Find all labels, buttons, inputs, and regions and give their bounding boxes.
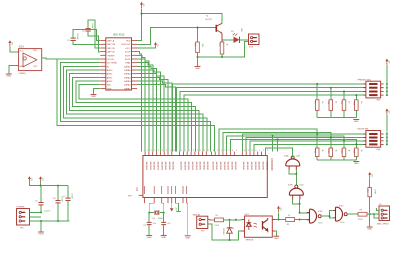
svg-text:P$1: P$1	[33, 50, 37, 52]
svg-text:(AD0)PA0: (AD0)PA0	[261, 162, 264, 170]
svg-text:(AD0)PA0: (AD0)PA0	[215, 162, 218, 170]
svg-text:5: 5	[236, 150, 237, 152]
svg-text:ADR1: ADR1	[107, 73, 113, 76]
svg-text:(AD0)PA0: (AD0)PA0	[168, 162, 171, 170]
svg-text:1: 1	[221, 150, 222, 152]
svg-text:(AD0)PA0: (AD0)PA0	[234, 162, 237, 170]
svg-text:+5V: +5V	[142, 3, 144, 7]
svg-text:2200: 2200	[215, 225, 220, 227]
svg-text:1k: 1k	[334, 150, 336, 153]
power VCC symbol on IC1 TOE pin	[137, 42, 158, 48]
svg-text:D1: D1	[232, 228, 235, 230]
svg-text:DATA5: DATA5	[124, 73, 131, 76]
svg-text:(AD0)PA0: (AD0)PA0	[191, 162, 194, 170]
ground symbol power section	[38, 232, 44, 236]
ground symbol below MIDI THRU	[367, 227, 373, 231]
wire MIDI THRU pin3 to ground	[370, 214, 379, 226]
wire op-amp output to IC1 pin	[42, 57, 100, 60]
microcontroller IC2 AT90S8535	[128, 150, 273, 204]
svg-text:C1: C1	[67, 40, 71, 42]
svg-text:R8: R8	[327, 101, 329, 105]
power VCC symbol on AVCC pin	[170, 203, 177, 211]
svg-text:DATA4: DATA4	[124, 76, 131, 79]
svg-text:ADR3: ADR3	[107, 80, 113, 83]
svg-text:DATA7: DATA7	[124, 65, 131, 68]
resistor R3 2200	[215, 215, 224, 227]
ground symbol below IC2 GND pin	[185, 236, 191, 240]
ground symbol below PRESET resistors	[353, 120, 359, 124]
resistor R7 220R vertical	[366, 188, 376, 197]
svg-text:MIDI IN: MIDI IN	[193, 214, 201, 216]
svg-text:7400: 7400	[318, 222, 323, 224]
svg-text:22p: 22p	[167, 223, 171, 225]
svg-text:1k: 1k	[321, 150, 323, 153]
LED D2	[231, 28, 242, 43]
svg-text:220R: 220R	[373, 189, 375, 194]
svg-text:+5V: +5V	[156, 43, 158, 47]
svg-text:7: 7	[208, 150, 209, 152]
wire R7 to output net	[369, 179, 371, 215]
ground symbol below R1	[195, 57, 201, 70]
svg-text:SV2: SV2	[249, 47, 254, 49]
ground symbol below IC1	[91, 88, 101, 98]
svg-text:(AD0)PA0: (AD0)PA0	[172, 162, 175, 170]
crystal Q1	[153, 210, 164, 220]
svg-text:(AD0)PA0: (AD0)PA0	[183, 162, 186, 170]
svg-text:SFH618: SFH618	[246, 239, 254, 241]
ground symbol below MODE resistors	[353, 162, 359, 166]
svg-text:R12: R12	[327, 150, 329, 155]
svg-text:4: 4	[232, 150, 233, 152]
svg-text:+5V: +5V	[30, 177, 32, 181]
svg-text:(AD0)PA0: (AD0)PA0	[199, 162, 202, 170]
power VCC symbol for op-amp	[8, 40, 12, 46]
svg-text:GND: GND	[367, 229, 372, 231]
svg-text:JP2: JP2	[201, 230, 205, 232]
svg-text:R7: R7	[366, 189, 368, 193]
wire top power rail	[29, 183, 68, 187]
svg-text:(AD0)PA0: (AD0)PA0	[180, 162, 183, 170]
svg-text:VCC: VCC	[19, 51, 24, 53]
svg-text:(AD0)PA0: (AD0)PA0	[223, 162, 226, 170]
svg-text:9: 9	[217, 150, 218, 152]
svg-text:5: 5	[200, 150, 201, 152]
power VCC symbol above R7	[368, 172, 372, 178]
svg-text:CLOCK: CLOCK	[107, 59, 115, 61]
svg-text:(AD0)PA0: (AD0)PA0	[258, 162, 261, 170]
ground symbol below op-amp	[6, 74, 12, 78]
connector JP2 MIDI IN	[193, 214, 208, 232]
svg-text:IC2: IC2	[136, 187, 139, 191]
capacitor C4 22p	[161, 213, 171, 235]
svg-text:T1: T1	[206, 15, 209, 17]
NAND gate IC3A	[284, 154, 301, 170]
svg-text:+5V: +5V	[279, 207, 281, 211]
svg-text:IC3A: IC3A	[284, 154, 289, 157]
svg-text:6: 6	[244, 150, 245, 152]
svg-text:+5V: +5V	[41, 177, 43, 181]
svg-text:ADR2: ADR2	[107, 76, 113, 79]
resistors R11-R14 pulldowns for MODE	[313, 133, 362, 160]
svg-text:3: 3	[267, 150, 268, 152]
svg-text:GND: GND	[274, 238, 279, 240]
svg-text:R7: R7	[313, 101, 315, 105]
svg-text:AT90S8535: AT90S8535	[270, 158, 273, 171]
svg-text:8: 8	[252, 150, 253, 152]
svg-text:CAP OM: CAP OM	[107, 43, 115, 46]
wire opto emitter to ground	[275, 231, 276, 236]
capacitor C1 1000nF	[67, 33, 78, 42]
svg-text:C3: C3	[143, 225, 146, 227]
svg-text:1k: 1k	[226, 44, 228, 47]
svg-text:+5V: +5V	[11, 41, 13, 45]
wire from VCC to op-amp V+ pin	[10, 47, 19, 52]
svg-text:(AD0)PA0: (AD0)PA0	[145, 162, 148, 170]
svg-text:6: 6	[166, 150, 167, 152]
svg-text:1k: 1k	[321, 101, 323, 104]
capacitor C3 22p	[143, 213, 157, 235]
svg-text:1000nF: 1000nF	[76, 33, 78, 41]
svg-text:MIDI_THRU: MIDI_THRU	[377, 223, 389, 225]
svg-text:DATA6: DATA6	[124, 69, 131, 72]
svg-text:IC1A: IC1A	[19, 46, 25, 49]
capacitor C5 100uF	[35, 186, 51, 213]
wire IC1 StD output to transistor base	[137, 28, 216, 45]
svg-text:DATA1: DATA1	[124, 87, 131, 90]
svg-text:8: 8	[213, 150, 214, 152]
svg-text:1K: 1K	[288, 215, 291, 217]
wire R5 to gate IC3D input	[295, 219, 310, 221]
wire transistor base junction to R1	[197, 27, 199, 43]
svg-text:7: 7	[170, 150, 171, 152]
ground symbol below optocoupler	[273, 236, 279, 240]
svg-text:100nF: 100nF	[71, 193, 73, 199]
power VCC symbol for MODE SEL	[385, 109, 389, 115]
svg-text:2: 2	[151, 150, 152, 152]
svg-text:1k: 1k	[348, 150, 350, 153]
svg-text:Q1: Q1	[153, 218, 157, 220]
svg-text:SED 4510: SED 4510	[113, 34, 125, 37]
svg-text:(AD0)PA0: (AD0)PA0	[195, 162, 198, 170]
svg-text:2: 2	[189, 150, 190, 152]
wire IC3D output to IC3C inputs	[321, 210, 332, 218]
svg-text:CAP DB: CAP DB	[107, 51, 115, 54]
wire MODE row to MIDI THRU pin1	[377, 208, 380, 210]
svg-text:(AD0)PA0: (AD0)PA0	[157, 162, 160, 170]
NAND gate IC3D	[307, 209, 324, 224]
svg-text:BODOUT: BODOUT	[122, 44, 132, 46]
diode D1 1N4148	[224, 220, 236, 240]
wire R6 to MIDI THRU	[367, 213, 379, 215]
svg-text:5: 5	[162, 150, 163, 152]
svg-text:(AD0)PA0: (AD0)PA0	[211, 162, 214, 170]
svg-text:GND: GND	[91, 96, 96, 98]
svg-text:DATA3: DATA3	[124, 80, 131, 83]
wire GND pin down	[187, 203, 188, 235]
svg-text:(AD0)PA0: (AD0)PA0	[230, 162, 233, 170]
connector X2 MIDI THRU	[377, 204, 390, 225]
svg-text:(AD0)PA0: (AD0)PA0	[160, 162, 163, 170]
wire power gnd stem	[40, 221, 42, 232]
svg-text:R1: R1	[194, 44, 196, 48]
svg-text:JP1: JP1	[20, 227, 24, 229]
svg-text:7400: 7400	[299, 185, 304, 187]
wire C2 loop to IC1 pins	[88, 20, 100, 52]
svg-text:2200: 2200	[358, 219, 363, 221]
connector SV2	[249, 34, 260, 49]
svg-text:(AD0)PA0: (AD0)PA0	[202, 162, 205, 170]
wire bus IC1 left pins wrap-around to IC2	[57, 59, 214, 152]
svg-text:(AD0)PA0: (AD0)PA0	[246, 162, 249, 170]
capacitor C7 100nF	[63, 186, 73, 221]
svg-text:+VCC: +VCC	[125, 48, 131, 50]
NAND gate IC3C	[333, 206, 348, 224]
svg-text:1k: 1k	[348, 101, 350, 104]
svg-text:4: 4	[197, 150, 198, 152]
ground symbol below C4	[161, 235, 167, 239]
svg-text:GND: GND	[161, 237, 166, 239]
wire op-amp inverting input to ground	[9, 66, 19, 74]
svg-text:9: 9	[181, 150, 182, 152]
svg-text:GND: GND	[6, 76, 11, 78]
svg-text:GND: GND	[185, 237, 190, 239]
svg-text:3: 3	[193, 150, 194, 152]
svg-text:2: 2	[225, 150, 226, 152]
svg-text:SV3: SV3	[376, 100, 381, 102]
svg-text:ROTF: ROTF	[125, 59, 131, 61]
svg-text:GND: GND	[354, 163, 359, 165]
svg-text:IN: IN	[107, 66, 110, 68]
connector JP1 POWER	[17, 207, 30, 230]
svg-text:R6: R6	[360, 209, 363, 211]
wire AREF pin to gnd	[175, 203, 181, 211]
wire IC3A inputs joined	[289, 170, 297, 185]
wire VCC to MODE SEL	[386, 115, 388, 131]
svg-text:3: 3	[228, 150, 229, 152]
wire R3 to optocoupler	[224, 219, 242, 221]
svg-text:GND: GND	[147, 237, 152, 239]
wire bus IC2 to PRESET SEL rows	[173, 84, 366, 152]
power VCC symbol at optocoupler collector	[277, 206, 281, 212]
svg-text:4MHz: 4MHz	[158, 218, 163, 220]
svg-text:SV4: SV4	[376, 149, 381, 151]
connector SV4 MODE SEL	[358, 129, 388, 151]
svg-text:10k: 10k	[201, 44, 203, 48]
svg-text:GND: GND	[39, 234, 44, 236]
svg-text:R5: R5	[287, 224, 290, 226]
svg-text:VDD: VDD	[107, 85, 112, 87]
svg-text:GND: GND	[195, 68, 200, 70]
svg-text:+5V: +5V	[370, 173, 372, 177]
svg-text:R3: R3	[216, 215, 219, 217]
svg-text:ROTF: ROTF	[125, 55, 131, 57]
svg-text:(AD0)PA0: (AD0)PA0	[206, 162, 209, 170]
svg-text:7400: 7400	[296, 155, 301, 157]
svg-text:100uF: 100uF	[44, 211, 50, 213]
svg-text:C7: C7	[63, 196, 66, 198]
svg-text:(AD0)PA0: (AD0)PA0	[164, 162, 167, 170]
op-amp U1 LM358	[19, 46, 42, 76]
wire JP2 pin2 to bottom rail	[208, 224, 242, 241]
svg-text:MODE SEL: MODE SEL	[358, 129, 370, 131]
svg-text:C5: C5	[35, 201, 38, 203]
svg-text:LM358: LM358	[19, 73, 26, 75]
resistor R2 1k	[218, 42, 228, 54]
svg-text:(AD0)PA0: (AD0)PA0	[153, 162, 156, 170]
svg-text:6: 6	[204, 150, 205, 152]
svg-text:1k: 1k	[360, 101, 362, 104]
wire JP2 pin1 to R3	[208, 219, 215, 221]
svg-text:C2: C2	[82, 31, 86, 33]
svg-text:RST: RST	[128, 196, 133, 198]
svg-text:CAP LA: CAP LA	[107, 40, 115, 43]
svg-text:+5V: +5V	[388, 110, 390, 114]
svg-text:VDD: VDD	[126, 41, 131, 43]
wire R1 R2 bottoms to rail and SV2	[197, 41, 249, 58]
svg-text:1k: 1k	[360, 150, 362, 153]
svg-text:(AD0)PA0: (AD0)PA0	[227, 162, 230, 170]
svg-text:4: 4	[158, 150, 159, 152]
svg-text:R11: R11	[313, 150, 315, 155]
connector SV3 PRESET SEL	[358, 79, 388, 101]
power VCC symbol P1	[28, 176, 32, 182]
svg-text:1: 1	[259, 150, 260, 152]
optocoupler OK1 SFH618	[242, 214, 276, 241]
transistor T1 BC237	[206, 15, 222, 40]
svg-text:22p: 22p	[153, 223, 157, 225]
svg-text:(AD0)PA0: (AD0)PA0	[149, 162, 152, 170]
svg-text:VCCF: VCCF	[125, 52, 131, 54]
svg-text:PRESET SEL: PRESET SEL	[358, 79, 372, 81]
svg-text:100nF: 100nF	[91, 23, 93, 29]
svg-text:7400: 7400	[340, 222, 345, 224]
svg-text:R10: R10	[352, 101, 354, 106]
svg-text:CAP OB: CAP OB	[107, 47, 115, 50]
capacitor C6 100uF	[53, 186, 63, 221]
svg-text:DG~VDFA: DG~VDFA	[107, 62, 117, 65]
svg-text:IC3C: IC3C	[339, 206, 344, 208]
power VCC symbol P2	[39, 176, 43, 182]
wire bus IC2 to MODE SEL rows	[219, 129, 366, 152]
svg-text:(AD0)PA0: (AD0)PA0	[242, 162, 245, 170]
svg-text:+5V: +5V	[175, 207, 177, 211]
ground symbol below C3	[146, 235, 152, 239]
resistor R1 10k	[194, 42, 204, 53]
wire IC3B inputs to IC3D	[293, 200, 310, 214]
svg-text:~RESET: ~RESET	[107, 55, 116, 57]
resistors R7-R10 pulldowns for PRESET	[313, 83, 362, 118]
wire XTAL pins down	[148, 203, 165, 213]
svg-text:(AD0)PA0: (AD0)PA0	[187, 162, 190, 170]
svg-text:R2: R2	[218, 44, 220, 48]
svg-text:(AD0)PA0: (AD0)PA0	[254, 162, 257, 170]
svg-text:R13: R13	[340, 150, 342, 155]
svg-text:1k: 1k	[334, 101, 336, 104]
svg-text:1: 1	[185, 150, 186, 152]
resistor R6 2200	[358, 209, 367, 220]
resistor R5 1K	[286, 215, 295, 226]
svg-text:LED: LED	[240, 28, 242, 32]
wire VCC to PRESET SEL	[386, 65, 388, 82]
wire LED to SV2	[240, 39, 249, 41]
svg-text:1N4148: 1N4148	[224, 228, 226, 235]
wire emitter to LED	[222, 33, 234, 42]
svg-text:C6: C6	[53, 198, 56, 200]
svg-text:3: 3	[154, 150, 155, 152]
svg-text:(AD0)PA0: (AD0)PA0	[250, 162, 253, 170]
wire VCC rail to IC1 VDD and transistor collector	[137, 8, 222, 40]
svg-text:(AD0)PA0: (AD0)PA0	[265, 162, 268, 170]
wire opto collector to VCC and R5	[275, 212, 285, 220]
svg-text:GND: GND	[107, 88, 112, 90]
svg-text:D2: D2	[231, 31, 234, 33]
svg-text:(AD0)PA0: (AD0)PA0	[219, 162, 222, 170]
wire POWER pins to rails	[30, 211, 70, 222]
svg-text:IC3B: IC3B	[288, 185, 293, 187]
svg-text:7: 7	[248, 150, 249, 152]
svg-text:DATA2: DATA2	[124, 84, 131, 87]
svg-text:POWER: POWER	[17, 207, 25, 209]
NAND gate IC3B	[288, 185, 305, 200]
wire IC3C output to R6	[347, 213, 358, 215]
svg-text:ADR0: ADR0	[107, 69, 113, 72]
svg-text:DFAT: DFAT	[125, 62, 131, 65]
svg-text:8: 8	[174, 150, 175, 152]
svg-text:9: 9	[256, 150, 257, 152]
svg-text:2: 2	[263, 150, 264, 152]
IC1 DTMF decoder SED4510	[100, 34, 137, 91]
svg-text:1: 1	[147, 150, 148, 152]
svg-text:+5V: +5V	[388, 60, 390, 64]
wire C1 loop to IC1 pins	[73, 30, 100, 45]
power VCC symbol for PRESET SEL	[385, 59, 389, 65]
wire IC3A output to IC2 pin	[266, 148, 293, 157]
svg-text:OUT: OUT	[33, 66, 38, 68]
svg-text:IC3D: IC3D	[318, 211, 323, 213]
svg-text:R14: R14	[352, 150, 354, 155]
svg-text:GND: GND	[19, 66, 24, 68]
wire bus IC1 right pins staircase to IC2	[137, 52, 176, 152]
svg-text:BC237: BC237	[206, 19, 213, 21]
svg-text:R9: R9	[340, 101, 342, 105]
capacitor C2 100nF	[82, 23, 93, 33]
svg-text:GND: GND	[354, 121, 359, 123]
power VCC symbol above IC1	[140, 2, 144, 8]
